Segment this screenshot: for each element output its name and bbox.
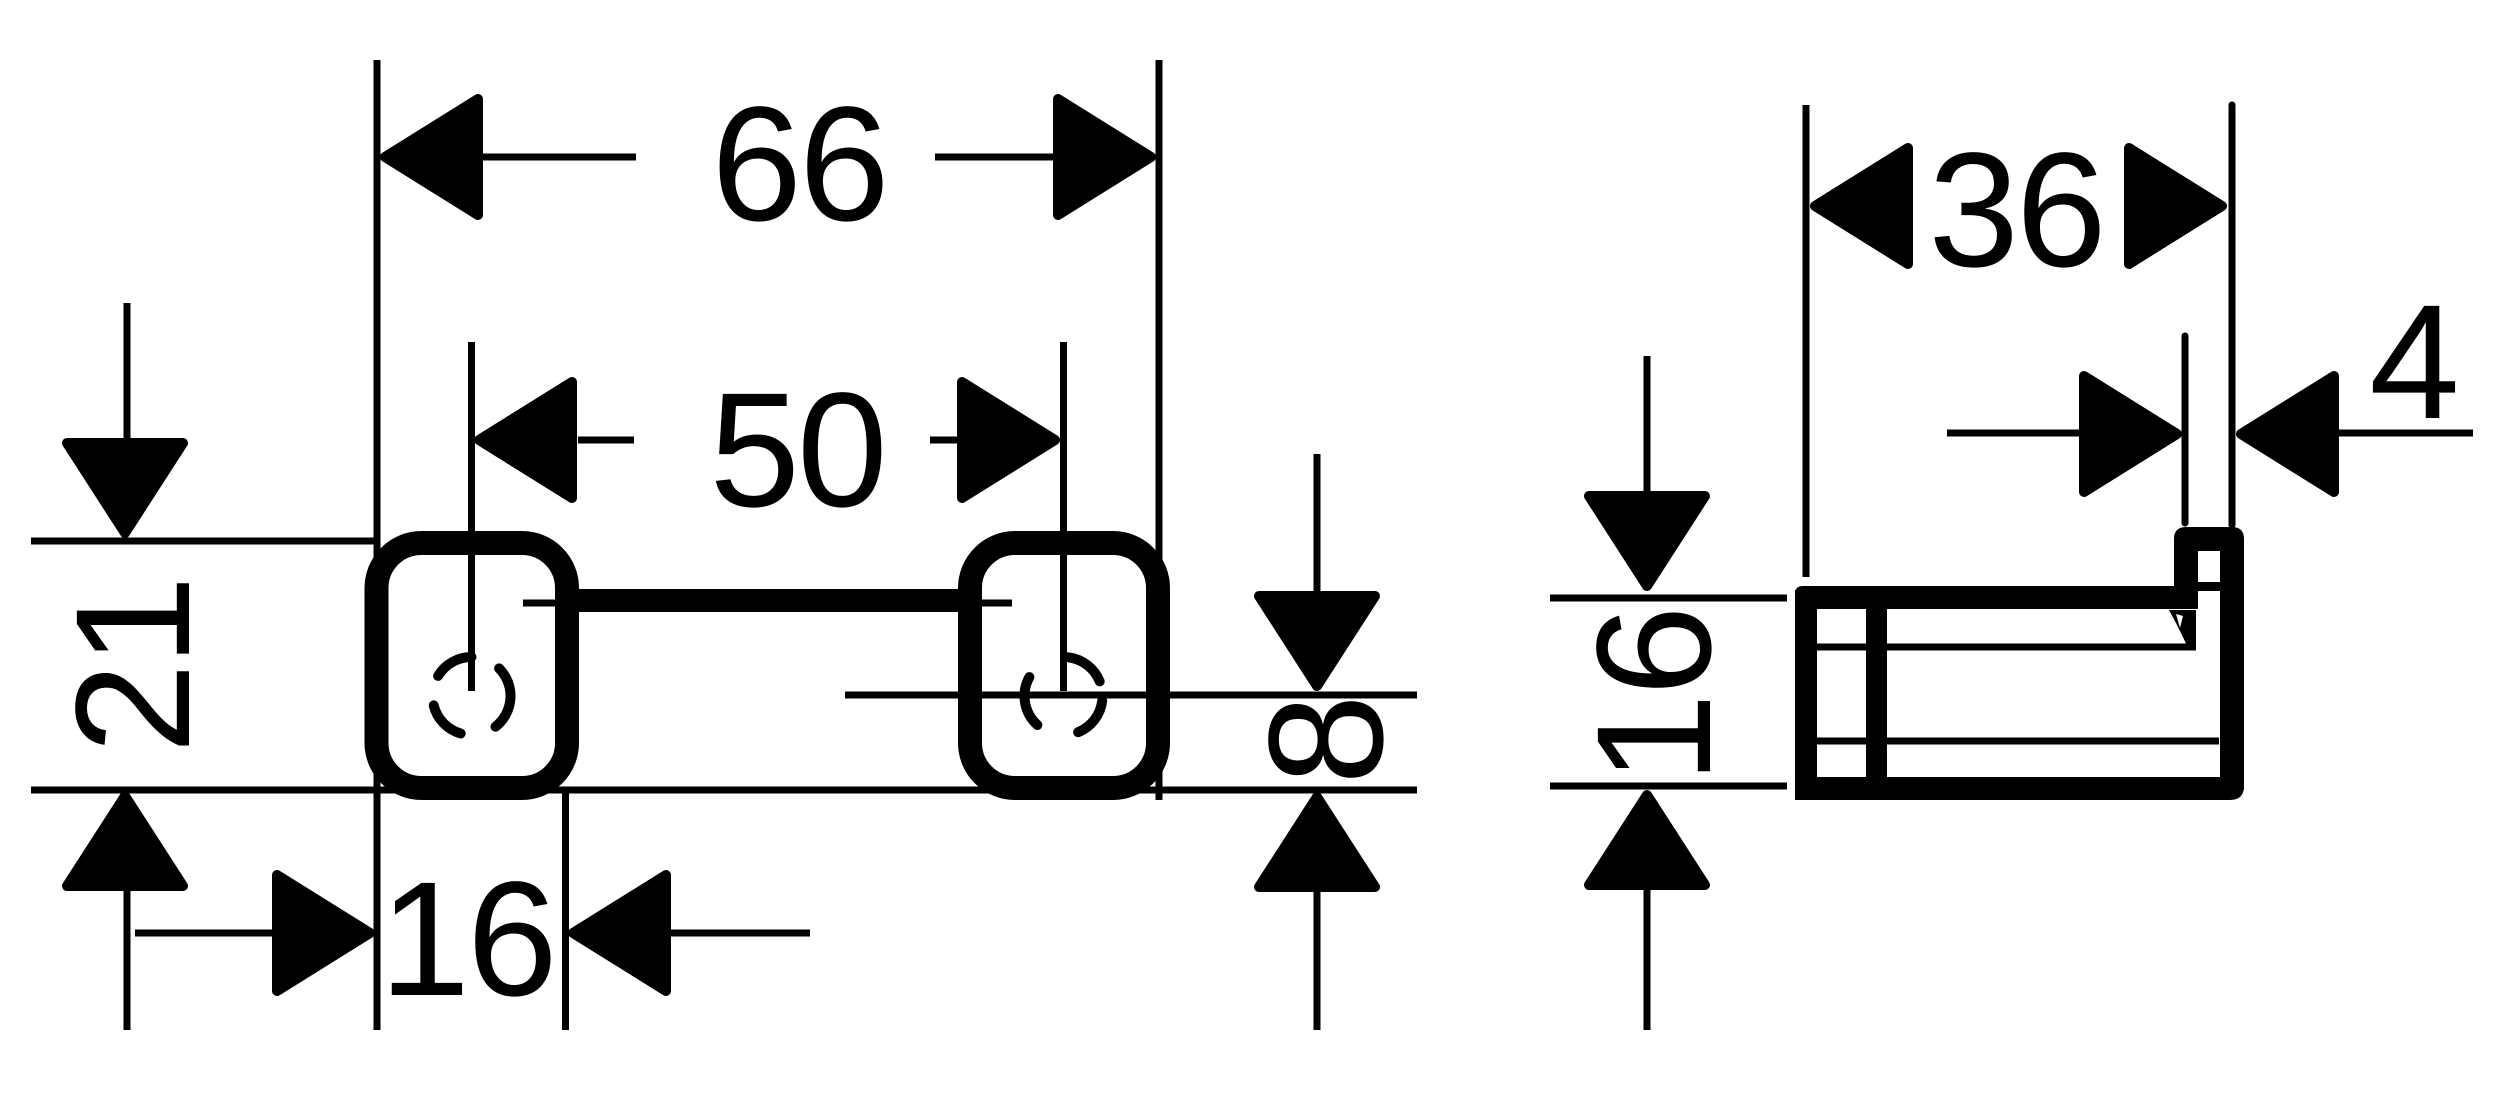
extension line 66 left / 16 left [374,60,381,1030]
svg-text:21: 21 [41,578,224,753]
side view dim 16 upper stem [1644,356,1651,498]
extension line 4 left [2182,336,2189,523]
side view: 16 bottom reference line [1550,783,1787,790]
dim 4 right-pointing arrow [2084,376,2177,492]
bar centerline stubs [523,600,1012,607]
left mounting plate (rounded square) [377,543,568,788]
dim 50 left arrow [479,382,572,498]
dim 50 line right stub [930,437,959,444]
svg-text:36: 36 [1928,118,2103,301]
dim 36 right arrow [2129,148,2222,264]
dim 8 upper stem [1314,454,1321,594]
extension line 36 left [1803,105,1810,577]
dim 8 up arrow [1259,797,1375,887]
extension line 16 right [562,791,569,1030]
dim 66 line left stub [483,154,636,161]
side view: inner line B [1817,738,2219,745]
front view: bottom reference line [31,787,1417,794]
side view: bottom bar [1795,777,2244,800]
dim 4 right stub [2338,430,2473,437]
side view: hook tab [2174,527,2244,609]
side view dim 16 up arrow [1589,795,1705,885]
svg-text:16: 16 [1562,608,1745,783]
dim 8 down arrow [1259,596,1375,686]
dim 50 line left stub [578,437,634,444]
right mounting plate (rounded square) [970,543,1158,788]
side view: front plate [2220,600,2244,790]
dim 16 left stem [135,930,272,937]
side view: wall plate divider [1866,588,1887,788]
dim 21 upper stem [124,303,131,441]
dim 50 right arrow [962,382,1055,498]
side view dim 16 down arrow [1589,496,1705,586]
extension line 66 right [1156,60,1163,800]
svg-text:4: 4 [2369,270,2457,453]
dim 66 line right stub [935,154,1056,161]
extension line 50 right / right hole centerline [1060,342,1067,691]
svg-text:50: 50 [709,358,884,541]
side view: claw highlight [2176,614,2183,628]
svg-text:16: 16 [379,847,554,1030]
extension line 50 left / left hole centerline [468,342,475,691]
connecting bar [579,589,958,612]
svg-text:66: 66 [711,72,886,255]
dim 16 right-pointing arrow [277,875,370,991]
dim 66 left arrow [385,99,478,215]
side view dim 16 lower stem [1644,887,1651,1030]
dim 16 left-pointing arrow [573,875,666,991]
front view: hole center line (8 dim) [845,692,1417,699]
dim 21 up arrow [67,796,183,886]
side view: left wall [1795,590,1817,796]
side view: 16 top reference line [1550,595,1787,602]
svg-text:8: 8 [1234,697,1417,785]
dim 4 left-pointing arrow [2241,376,2334,492]
dim 16 right stem [671,930,810,937]
dim 8 lower stem [1314,889,1321,1030]
side view: top bar [1795,586,2198,609]
extension line 36/4 right [2229,105,2236,525]
side view: hook tab hole [2198,551,2220,582]
dim 36 left arrow [1815,148,1908,264]
dim 4 left stub [1947,430,2082,437]
left screw hole symbol [434,657,511,734]
dim 21 down arrow [67,443,183,533]
side view: hook claw [2169,610,2196,649]
front view: top reference line (21 dim) [31,538,377,545]
dim 21 lower stem [124,889,131,1030]
dim 66 right arrow [1058,99,1151,215]
side view: inner line A [1817,644,2196,651]
right screw hole symbol [1025,657,1103,732]
